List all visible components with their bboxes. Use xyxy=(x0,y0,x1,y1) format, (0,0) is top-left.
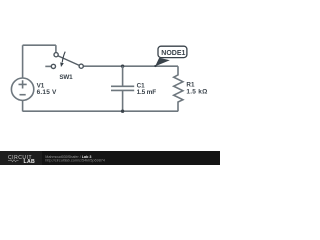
svg-text:R1: R1 xyxy=(186,82,195,89)
wire bottom rail xyxy=(23,110,178,112)
node junction bottom xyxy=(121,110,124,113)
svg-text:LAB: LAB xyxy=(24,159,36,165)
svg-text:SW1: SW1 xyxy=(59,74,73,81)
resistor R1 xyxy=(174,66,183,111)
label V1 value xyxy=(37,82,57,96)
capacitor C1 xyxy=(111,66,134,111)
label R1 value xyxy=(186,82,207,96)
wire left rail lower xyxy=(22,100,24,111)
svg-text:1.5 kΩ: 1.5 kΩ xyxy=(186,89,207,96)
wire mid rail xyxy=(83,65,178,67)
wire top rail xyxy=(23,44,56,46)
node junction mid xyxy=(121,65,124,68)
svg-text:6.15 V: 6.15 V xyxy=(37,89,57,96)
switch SW1 xyxy=(45,52,83,69)
wire left rail upper xyxy=(22,45,24,78)
voltage source V1 xyxy=(11,78,33,100)
svg-text:1.5 mF: 1.5 mF xyxy=(137,89,157,96)
wire switch drop xyxy=(55,45,57,52)
svg-text:http://circuitlab.com/c/54kh5p: http://circuitlab.com/c/54kh5p69874 xyxy=(45,159,105,163)
svg-text:NODE1: NODE1 xyxy=(161,50,185,57)
label C1 value xyxy=(137,82,157,96)
node NODE1 callout xyxy=(154,46,187,67)
watermark footer xyxy=(0,151,220,165)
